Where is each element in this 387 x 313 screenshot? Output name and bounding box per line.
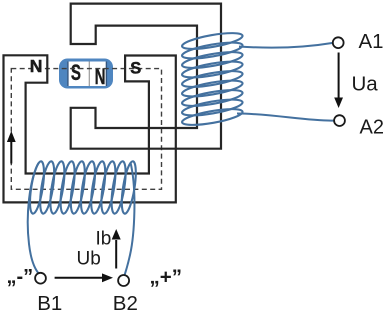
terminal B2 [118,275,129,286]
wire coil A to A2 [237,114,334,121]
terminal A1 [333,37,344,48]
core (left, field core with poles N/S and winding B) [4,55,176,202]
terminal B1 [35,273,46,284]
rotor inner edge right [105,62,107,87]
rotor interior [67,62,107,87]
arrow Ua (down) [334,53,343,109]
arrow Ib (up) [112,229,121,269]
arrow Ub (right, B1 to B2) [55,273,113,282]
wire coil A to A1 [239,43,333,48]
terminal A2 [334,115,345,126]
rotor inner edge left [67,62,69,87]
svg-text:N: N [30,56,43,76]
rotor divider [88,62,90,87]
svg-text:Ib: Ib [96,229,112,250]
coil B (10 turns on bottom bar) [27,160,138,214]
wire coil B to B2 [125,163,135,276]
svg-text:S: S [130,60,141,78]
dashed flux path loop [11,69,161,190]
coil A (9 turns on right limb) [181,30,244,128]
rotor magnet (blue rounded frame) [59,59,113,89]
flux direction arrow (up, in left limb) [7,131,16,164]
svg-text:Ua: Ua [352,73,379,96]
wire coil B to B1 [28,163,39,274]
svg-text:„-”: „-” [7,266,34,288]
svg-text:„+”: „+” [150,266,182,289]
svg-text:S: S [71,60,81,84]
svg-text:B2: B2 [113,292,138,313]
core (top, armature core with winding A) [71,4,221,149]
svg-text:A2: A2 [360,116,384,138]
svg-text:B1: B1 [37,292,62,313]
svg-text:Ub: Ub [77,249,101,270]
svg-text:A1: A1 [359,31,384,53]
